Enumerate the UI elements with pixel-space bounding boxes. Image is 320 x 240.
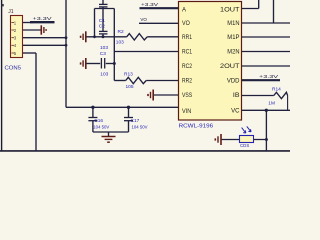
svg-text:VO: VO bbox=[182, 21, 190, 27]
svg-text:1M: 1M bbox=[268, 101, 275, 107]
svg-text:M1N: M1N bbox=[227, 21, 239, 27]
svg-text:VDD: VDD bbox=[227, 79, 240, 85]
svg-text:VC: VC bbox=[231, 109, 240, 115]
svg-text:104 50V: 104 50V bbox=[132, 125, 148, 130]
svg-text:RC2: RC2 bbox=[182, 64, 193, 70]
svg-text:104 50V: 104 50V bbox=[93, 125, 109, 130]
svg-text:105: 105 bbox=[126, 84, 134, 90]
svg-text:RCWL-9196: RCWL-9196 bbox=[179, 123, 214, 129]
svg-text:+3.3V: +3.3V bbox=[33, 16, 53, 22]
svg-text:R13: R13 bbox=[124, 72, 133, 78]
svg-text:103: 103 bbox=[100, 72, 108, 78]
svg-text:CDS: CDS bbox=[240, 143, 249, 148]
svg-text:CON5: CON5 bbox=[5, 66, 22, 72]
svg-text:1OUT: 1OUT bbox=[220, 7, 240, 13]
svg-text:+3.3V: +3.3V bbox=[141, 2, 159, 8]
svg-text:+3.3V: +3.3V bbox=[259, 74, 279, 80]
svg-text:M1P: M1P bbox=[227, 35, 239, 41]
svg-text:M2N: M2N bbox=[227, 50, 239, 56]
svg-text:C1: C1 bbox=[99, 18, 105, 24]
svg-text:J1: J1 bbox=[8, 9, 14, 15]
svg-text:C17: C17 bbox=[131, 118, 140, 124]
svg-text:RR1: RR1 bbox=[182, 35, 193, 41]
svg-text:R2: R2 bbox=[118, 29, 124, 35]
svg-text:VO: VO bbox=[140, 17, 147, 22]
svg-text:C3: C3 bbox=[100, 51, 106, 57]
svg-text:C16: C16 bbox=[94, 118, 103, 124]
svg-text:103: 103 bbox=[116, 40, 124, 46]
svg-text:RR2: RR2 bbox=[182, 79, 193, 85]
svg-text:IB: IB bbox=[233, 93, 240, 99]
svg-text:VIN: VIN bbox=[182, 109, 191, 115]
svg-text:103: 103 bbox=[100, 45, 108, 51]
svg-text:RC1: RC1 bbox=[182, 50, 193, 56]
svg-text:A: A bbox=[182, 7, 186, 13]
svg-text:2OUT: 2OUT bbox=[220, 64, 240, 70]
svg-text:R14: R14 bbox=[272, 87, 281, 93]
svg-text:VSS: VSS bbox=[182, 93, 192, 99]
svg-text:C2: C2 bbox=[99, 24, 105, 30]
